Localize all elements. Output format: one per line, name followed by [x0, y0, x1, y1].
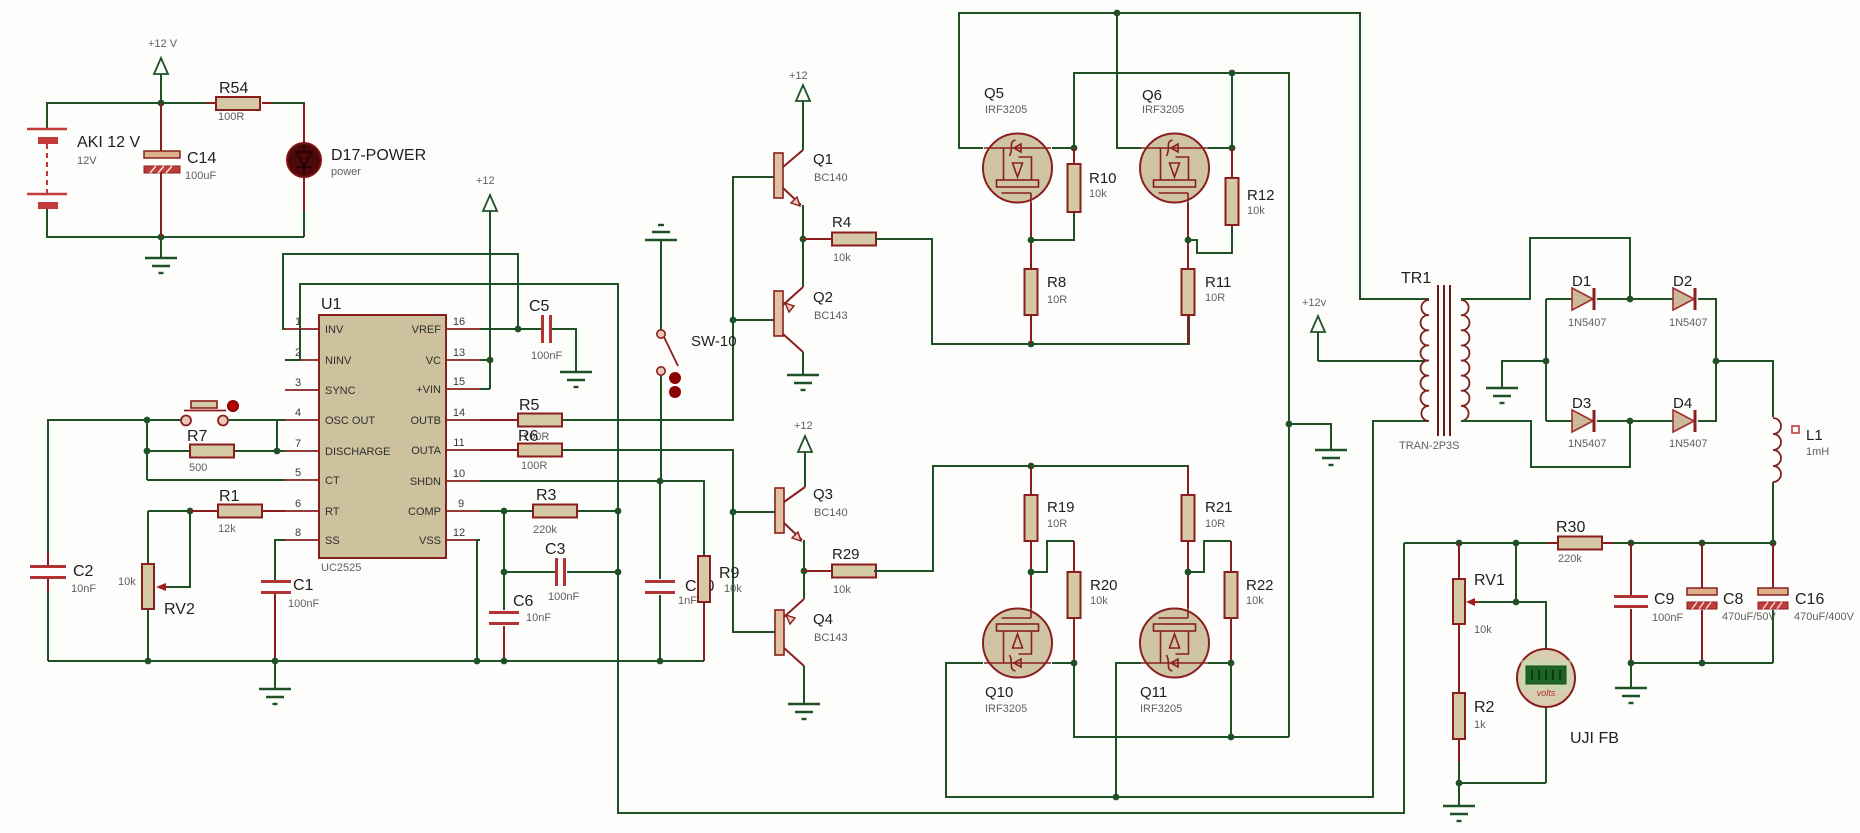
- switch SW-10: [657, 330, 737, 398]
- wire net SS pin8 to C1: [275, 540, 285, 580]
- svg-text:R19: R19: [1047, 499, 1075, 516]
- svg-text:7: 7: [295, 438, 301, 450]
- LED D17-POWER: [287, 103, 426, 212]
- resistor R7: [187, 428, 234, 474]
- svg-text:15: 15: [453, 376, 465, 388]
- resistor R2: [1453, 693, 1495, 762]
- svg-text:UJI FB: UJI FB: [1570, 730, 1619, 747]
- svg-text:1N5407: 1N5407: [1568, 438, 1607, 450]
- svg-text:Q1: Q1: [813, 151, 833, 168]
- svg-text:1N5407: 1N5407: [1568, 317, 1607, 329]
- svg-text:R1: R1: [219, 488, 240, 505]
- svg-text:Q5: Q5: [984, 85, 1004, 102]
- wire R19 to R20 jog and Q10 top: [1031, 541, 1074, 608]
- resistor R19: [1025, 466, 1075, 572]
- svg-text:100nF: 100nF: [288, 598, 319, 610]
- svg-text:RV1: RV1: [1474, 572, 1505, 589]
- junction R2 bottom: [1456, 780, 1463, 787]
- wire Q1 emitter to mid node: [802, 205, 804, 239]
- svg-text:COMP: COMP: [408, 506, 441, 518]
- svg-text:R9: R9: [719, 565, 740, 582]
- wire TR1 secondary top loop over D1: [1461, 238, 1630, 299]
- svg-text:volts: volts: [1537, 688, 1556, 698]
- resistor R6: [480, 428, 562, 472]
- junction node +12V at C14 top: [158, 100, 165, 107]
- svg-text:C16: C16: [1795, 591, 1824, 608]
- junction Q11 drain: [1228, 660, 1235, 667]
- svg-text:10R: 10R: [1205, 292, 1225, 304]
- ground symbol secondary: [1486, 388, 1518, 403]
- svg-text:10R: 10R: [1047, 294, 1067, 306]
- svg-text:100uF: 100uF: [185, 170, 216, 182]
- wire net CT pin5: [147, 479, 285, 481]
- resistor R30: [1547, 519, 1613, 565]
- wire SW-10 upper: [660, 240, 662, 330]
- junction R19 top on rail: [1028, 463, 1035, 470]
- svg-text:D17-POWER: D17-POWER: [331, 147, 426, 164]
- wire Q5 source to R8 and R10 jog: [1031, 203, 1074, 269]
- capacitor C1: [261, 577, 319, 661]
- junction R8 bottom on rail: [1028, 341, 1035, 348]
- svg-text:14: 14: [453, 407, 465, 419]
- svg-text:9: 9: [458, 498, 464, 510]
- svg-text:L1: L1: [1806, 427, 1823, 444]
- diode D1 1N5407: [1568, 273, 1630, 329]
- svg-text:IRF3205: IRF3205: [1142, 104, 1184, 116]
- capacitor C3: [545, 541, 579, 603]
- junction rectifier out: [1713, 358, 1720, 365]
- svg-text:C5: C5: [529, 298, 550, 315]
- svg-text:C6: C6: [513, 593, 534, 610]
- svg-text:+12: +12: [476, 175, 495, 187]
- power +12 arrow Q3: [794, 420, 813, 487]
- transistor Q4 BC143 PNP: [775, 599, 848, 666]
- junction drain rail lower: [1228, 734, 1235, 741]
- inductor L1: [1773, 418, 1829, 482]
- svg-text:10k: 10k: [1090, 595, 1108, 607]
- junction VC on +12 stem: [487, 357, 494, 364]
- junction D3 D4: [1627, 418, 1634, 425]
- svg-text:220k: 220k: [533, 524, 557, 536]
- pushbutton SW reset: [181, 401, 239, 426]
- svg-text:10k: 10k: [833, 584, 851, 596]
- potentiometer RV2: [118, 564, 195, 618]
- junction D1 D2: [1627, 296, 1634, 303]
- wire Q2 collector to ground: [802, 352, 804, 375]
- capacitor C16 electrolytic: [1758, 543, 1855, 663]
- wire net C3 row: [504, 572, 618, 610]
- wire net Q10 Q11 gates to TR1 primary bottom: [946, 421, 1429, 797]
- ground symbol on rail: [259, 661, 291, 704]
- transistor Q10 IRF3205 MOSFET flipped: [983, 608, 1052, 715]
- resistor R29: [804, 546, 876, 596]
- junction VREF at pin1 drop: [515, 326, 522, 333]
- svg-text:R10: R10: [1089, 170, 1117, 187]
- capacitor C9: [1614, 543, 1683, 663]
- junction Q3 Q4 mid node: [801, 568, 808, 575]
- power +12 arrow above U1: [476, 175, 497, 389]
- svg-text:U1: U1: [321, 296, 342, 313]
- wire net drain rail Q5 Q6 upper: [1052, 73, 1289, 737]
- svg-text:R6: R6: [518, 428, 539, 445]
- diode D3 1N5407: [1568, 395, 1630, 450]
- svg-text:C2: C2: [73, 563, 94, 580]
- wire R21 to R22 jog and Q11 top: [1188, 541, 1231, 608]
- capacitor C2: [30, 552, 96, 595]
- wire R2 bottom voltmeter bottom: [1459, 708, 1546, 806]
- svg-text:R12: R12: [1247, 187, 1275, 204]
- U1 right pin numbers 16 13 15 14 11 10 9 12: [453, 316, 465, 539]
- diode D2 1N5407: [1630, 273, 1716, 361]
- junction Q5 source: [1028, 237, 1035, 244]
- junction OUTB at Q2 base: [730, 317, 737, 324]
- ground symbol battery: [145, 237, 177, 273]
- svg-text:RT: RT: [325, 506, 340, 518]
- svg-text:100nF: 100nF: [531, 350, 562, 362]
- svg-text:+12 V: +12 V: [148, 38, 178, 50]
- wire Q4 emitter from mid node: [803, 571, 805, 599]
- svg-text:Q10: Q10: [985, 684, 1013, 701]
- junction anode rail ground: [1543, 358, 1550, 365]
- svg-text:C14: C14: [187, 150, 216, 167]
- svg-text:C3: C3: [545, 541, 566, 558]
- svg-text:12V: 12V: [77, 155, 97, 167]
- junction filter C8: [1699, 660, 1706, 667]
- svg-text:R22: R22: [1246, 577, 1274, 594]
- ground symbol Q2: [787, 375, 819, 390]
- svg-text:INV: INV: [325, 324, 344, 336]
- resistor R54: [206, 80, 272, 123]
- wire RV1 wiper to voltmeter: [1479, 543, 1546, 649]
- junction drain rail at R12: [1229, 145, 1236, 152]
- svg-text:1mH: 1mH: [1806, 446, 1829, 458]
- svg-text:R7: R7: [187, 428, 208, 445]
- svg-text:16: 16: [453, 316, 465, 328]
- junction ground rail C1: [272, 658, 279, 665]
- junction C3 right: [615, 569, 622, 576]
- svg-text:VC: VC: [426, 355, 441, 367]
- junction filter C9: [1628, 660, 1635, 667]
- junction SHDN at SW-10: [657, 478, 664, 485]
- svg-text:6: 6: [295, 498, 301, 510]
- wire net OUTA pin11 through R6 to Q3 Q4 bases: [562, 450, 775, 632]
- ground symbol near TR1: [1315, 450, 1347, 465]
- wire net rectifier out to L1: [1716, 361, 1773, 417]
- svg-text:R4: R4: [832, 214, 851, 231]
- wire net Q10 Q11 drain rail lower: [1052, 618, 1289, 737]
- potentiometer RV1: [1453, 543, 1505, 636]
- junction OSC row left: [144, 417, 151, 424]
- junction rail wiper: [1513, 540, 1520, 547]
- junction Q11 top: [1185, 569, 1192, 576]
- svg-text:BC140: BC140: [814, 172, 848, 184]
- U1 pin names: [325, 324, 390, 547]
- svg-text:OSC OUT: OSC OUT: [325, 415, 375, 427]
- op-amp controller U1 UC2525 body: [319, 296, 446, 574]
- svg-text:470uF/50V: 470uF/50V: [1722, 611, 1776, 623]
- resistor R10: [1068, 148, 1117, 212]
- svg-text:RV2: RV2: [164, 601, 195, 618]
- wire net OSC-OUT pin4 with pushbutton row: [48, 420, 285, 566]
- svg-text:VREF: VREF: [412, 324, 442, 336]
- wire net COMP pin9 row: [480, 511, 618, 572]
- power +12 arrow Q1: [789, 70, 810, 150]
- ground symbol Q4: [788, 704, 820, 719]
- resistor R5: [518, 397, 562, 427]
- svg-text:C1: C1: [293, 577, 314, 594]
- U1 left pin numbers 1 2 3 4 7 5 6 8: [295, 316, 301, 539]
- svg-text:R30: R30: [1556, 519, 1585, 536]
- wire TR1 secondary bottom loop under D3: [1461, 421, 1630, 467]
- wire ground tap on drain drop: [1289, 424, 1331, 450]
- svg-text:SS: SS: [325, 535, 340, 547]
- junction rail C16 L1: [1770, 540, 1777, 547]
- svg-text:1N5407: 1N5407: [1669, 317, 1708, 329]
- wire SW-10 lower to SHDN: [660, 375, 662, 481]
- junction C3 left: [501, 569, 508, 576]
- svg-text:12k: 12k: [218, 523, 236, 535]
- svg-text:DISCHARGE: DISCHARGE: [325, 446, 390, 458]
- svg-text:10k: 10k: [1089, 188, 1107, 200]
- svg-text:R3: R3: [536, 487, 557, 504]
- transistor Q1 BC140 NPN: [774, 150, 848, 206]
- svg-text:IRF3205: IRF3205: [985, 104, 1027, 116]
- svg-text:Q6: Q6: [1142, 87, 1162, 104]
- svg-text:10k: 10k: [833, 252, 851, 264]
- wire battery top rail +12V: [47, 103, 304, 145]
- svg-text:8: 8: [295, 527, 301, 539]
- wire TR1 primary center tap: [1318, 360, 1424, 362]
- junction RT at R1 left: [187, 508, 194, 515]
- svg-text:R8: R8: [1047, 274, 1066, 291]
- svg-text:100nF: 100nF: [1652, 612, 1683, 624]
- transformer TR1 TRAN-2P3S: [1399, 270, 1469, 452]
- junction ground rail VSS: [474, 658, 481, 665]
- wire L1 bottom to output rail: [1772, 482, 1774, 543]
- capacitor C10: [645, 578, 714, 607]
- svg-text:10nF: 10nF: [71, 583, 96, 595]
- wire Q6 source to R11 and R12 jog: [1188, 203, 1232, 269]
- svg-text:R11: R11: [1205, 274, 1231, 291]
- wire net +VIN pin15: [480, 388, 490, 390]
- resistor R11: [1182, 269, 1232, 344]
- svg-text:TRAN-2P3S: TRAN-2P3S: [1399, 440, 1460, 452]
- svg-text:10k: 10k: [1474, 624, 1492, 636]
- junction DISCHARGE right: [274, 448, 281, 455]
- resistor R8: [1025, 269, 1068, 344]
- svg-text:BC140: BC140: [814, 507, 848, 519]
- wire battery bottom rail: [47, 176, 304, 237]
- svg-text:5: 5: [295, 467, 301, 479]
- svg-text:Q3: Q3: [813, 486, 833, 503]
- svg-text:10k: 10k: [724, 583, 742, 595]
- svg-text:R21: R21: [1205, 499, 1233, 516]
- svg-text:UC2525: UC2525: [321, 562, 361, 574]
- power +12v arrow at TR1 center tap: [1302, 297, 1327, 361]
- svg-text:+12: +12: [789, 70, 808, 82]
- junction ground rail C10: [657, 658, 664, 665]
- junction gate rail: [1114, 10, 1121, 17]
- junction rail C8: [1699, 540, 1706, 547]
- svg-text:1k: 1k: [1474, 719, 1486, 731]
- wire C10 branch: [659, 481, 661, 661]
- battery BAT AKI 12V: [27, 129, 140, 209]
- junction gate line A: [1113, 794, 1120, 801]
- junction COMP at NINV drop: [615, 508, 622, 515]
- svg-text:10R: 10R: [1205, 518, 1225, 530]
- junction Q10 drain: [1071, 660, 1078, 667]
- junction ground rail RV2: [145, 658, 152, 665]
- wire ground rail main: [48, 592, 704, 661]
- wire net VC pin13: [480, 359, 490, 361]
- svg-text:Q11: Q11: [1140, 684, 1167, 701]
- svg-text:R20: R20: [1090, 577, 1118, 594]
- ground symbol at C5: [560, 372, 592, 387]
- svg-text:3: 3: [295, 377, 301, 389]
- svg-text:power: power: [331, 166, 361, 178]
- wire net D1 D3 anode rail with ground: [1502, 299, 1572, 421]
- svg-text:IRF3205: IRF3205: [1140, 703, 1182, 715]
- svg-text:AKI 12 V: AKI 12 V: [77, 134, 140, 151]
- wire Q3 emitter to mid node: [803, 540, 805, 571]
- svg-text:220k: 220k: [1558, 553, 1582, 565]
- wire net gate rail top Q5 Q6 to TR1 primary top: [959, 13, 1429, 299]
- svg-text:1N5407: 1N5407: [1669, 438, 1708, 450]
- wire net RT pin6 row: [148, 511, 285, 587]
- junction rail RV1: [1456, 540, 1463, 547]
- svg-text:470uF/400V: 470uF/400V: [1794, 611, 1855, 623]
- junction Q10 top: [1028, 569, 1035, 576]
- svg-text:OUTB: OUTB: [410, 415, 441, 427]
- svg-text:Q4: Q4: [813, 611, 833, 628]
- wire net NINV pin2 loop to feedback: [285, 284, 1404, 813]
- svg-text:10nF: 10nF: [526, 612, 551, 624]
- svg-text:SW-10: SW-10: [691, 333, 737, 350]
- svg-text:10k: 10k: [1247, 205, 1265, 217]
- svg-text:+12: +12: [794, 420, 813, 432]
- junction drain rail at R10: [1071, 145, 1078, 152]
- wire net SHDN pin10 row: [480, 481, 704, 556]
- wire net VREF pin16 to C5: [480, 329, 576, 372]
- svg-text:C8: C8: [1723, 591, 1744, 608]
- resistor R20: [1068, 572, 1118, 618]
- svg-text:R2: R2: [1474, 699, 1495, 716]
- capacitor C6: [489, 593, 551, 661]
- resistor R9: [698, 556, 742, 661]
- wire RV2 bottom to ground rail: [147, 609, 149, 661]
- svg-text:500: 500: [189, 462, 207, 474]
- svg-text:R29: R29: [832, 546, 860, 563]
- wire RV1 to R2: [1458, 624, 1460, 693]
- resistor R1: [190, 488, 262, 535]
- svg-text:BC143: BC143: [814, 310, 848, 322]
- svg-text:NINV: NINV: [325, 355, 352, 367]
- power +12V arrow top-left: [148, 38, 178, 103]
- ground symbol filter: [1615, 688, 1647, 703]
- junction OUTA at Q3 base: [730, 509, 737, 516]
- svg-text:CT: CT: [325, 475, 340, 487]
- ground symbol R2: [1443, 806, 1475, 821]
- wire Q2 emitter from mid node: [802, 239, 804, 287]
- junction wiper node: [1513, 599, 1520, 606]
- wire net filter bottom rail: [1631, 610, 1773, 688]
- svg-text:10k: 10k: [118, 576, 136, 588]
- svg-text:10: 10: [453, 468, 465, 480]
- wire Q4 collector to ground: [803, 666, 805, 704]
- svg-text:R5: R5: [519, 397, 540, 414]
- U1 right pin stubs: [446, 329, 480, 540]
- svg-text:C9: C9: [1654, 591, 1675, 608]
- svg-text:12: 12: [453, 527, 465, 539]
- capacitor C5: [529, 298, 562, 362]
- wire net INV pin1 loop over IC: [283, 254, 518, 329]
- svg-text:D3: D3: [1572, 395, 1591, 412]
- wire net R4 out to R8 R11 rail: [876, 239, 1189, 344]
- svg-text:100R: 100R: [521, 460, 547, 472]
- transistor Q5 IRF3205 MOSFET: [983, 85, 1052, 203]
- U1 left pin stubs: [285, 329, 319, 540]
- svg-text:R54: R54: [219, 80, 248, 97]
- svg-text:Q2: Q2: [813, 289, 833, 306]
- svg-text:VSS: VSS: [419, 535, 441, 547]
- svg-text:TR1: TR1: [1401, 270, 1431, 287]
- resistor R22: [1225, 572, 1274, 618]
- junction ground rail C6: [501, 658, 508, 665]
- svg-text:10k: 10k: [1246, 595, 1264, 607]
- svg-text:D4: D4: [1673, 395, 1692, 412]
- wire net DISCHARGE pin7 row: [147, 420, 285, 480]
- junction Q1 Q2 mid node: [800, 236, 807, 243]
- junction drain rail top: [1229, 70, 1236, 77]
- svg-text:100R: 100R: [218, 111, 244, 123]
- svg-text:SHDN: SHDN: [410, 476, 441, 488]
- svg-text:SYNC: SYNC: [325, 385, 356, 397]
- wire net OUTB pin14 through R5 to Q1 Q2 bases: [480, 177, 775, 420]
- resistor R4: [803, 214, 876, 264]
- capacitor C8 electrolytic: [1687, 543, 1776, 663]
- ground symbol inverted above SW-10: [645, 225, 677, 240]
- transistor Q3 BC140 NPN: [775, 486, 848, 541]
- voltmeter UJI FB: [1517, 649, 1619, 747]
- junction Q6 source: [1185, 237, 1192, 244]
- svg-text:4: 4: [295, 407, 301, 419]
- svg-text:+12v: +12v: [1302, 297, 1327, 309]
- junction ground tap: [1286, 421, 1293, 428]
- transistor Q2 BC143 PNP: [774, 287, 848, 352]
- junction rail C9: [1628, 540, 1635, 547]
- resistor R21: [1182, 466, 1233, 572]
- svg-text:OUTA: OUTA: [411, 445, 441, 457]
- wire net VSS pin12 drop: [477, 540, 480, 661]
- junction COMP at C3 riser: [501, 508, 508, 515]
- svg-text:11: 11: [453, 437, 464, 449]
- svg-text:D1: D1: [1572, 273, 1591, 290]
- transistor Q11 IRF3205 MOSFET flipped: [1140, 608, 1209, 715]
- junction ground rail at C14 bottom: [158, 234, 165, 241]
- svg-text:13: 13: [453, 347, 465, 359]
- resistor R12: [1226, 148, 1275, 225]
- svg-text:D2: D2: [1673, 273, 1692, 290]
- transistor Q6 IRF3205 MOSFET: [1140, 87, 1209, 203]
- wire net R29 out to R19 R21 rail: [874, 466, 1188, 571]
- junction DISCHARGE left: [144, 448, 151, 455]
- diode D4 1N5407: [1630, 361, 1716, 450]
- svg-text:IRF3205: IRF3205: [985, 703, 1027, 715]
- svg-text:10R: 10R: [1047, 518, 1067, 530]
- svg-text:+VIN: +VIN: [416, 384, 441, 396]
- capacitor C14 electrolytic: [144, 103, 216, 237]
- resistor R3: [533, 487, 577, 536]
